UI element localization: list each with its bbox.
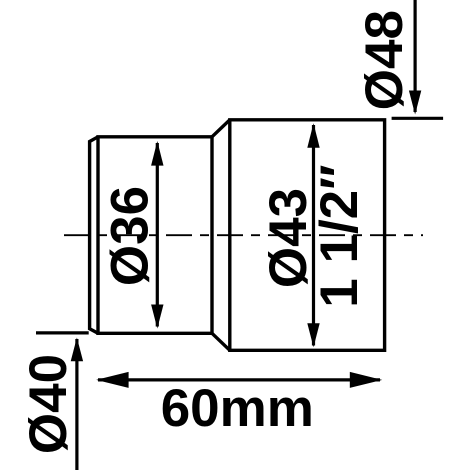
dimension Ø43 arrowhead down — [307, 323, 319, 347]
large cylinder outline — [230, 120, 385, 350]
dimension Ø48 arrow line — [414, 0, 417, 112]
small cylinder left lip edge — [90, 137, 98, 333]
small cylinder barrel outline — [90, 120, 385, 350]
dimension Ø40 arrowhead up — [71, 338, 83, 362]
dimension 60mm arrowhead right — [350, 372, 382, 388]
dimension 60mm arrow line — [98, 378, 380, 381]
svg-text:Ø40: Ø40 — [19, 354, 78, 454]
centerline (dash-dot axis) — [64, 234, 423, 236]
dimension Ø40 tick — [36, 331, 89, 334]
dimension Ø36 arrowhead down — [151, 305, 163, 329]
dimension Ø36 arrowhead up — [151, 141, 163, 166]
svg-text:60mm: 60mm — [161, 379, 314, 438]
shoulder cone top — [212, 120, 230, 137]
dimension 60mm arrowhead left — [96, 372, 128, 388]
svg-text:Ø36: Ø36 — [100, 186, 159, 286]
dimension Ø36 arrow line — [156, 143, 159, 327]
svg-text:1 1/2″: 1 1/2″ — [310, 164, 369, 307]
dimension Ø48 arrowhead down — [409, 91, 421, 115]
dimension Ø40 arrow line — [75, 339, 78, 470]
shoulder cone bottom — [212, 333, 230, 350]
dimension Ø43 arrowhead up — [307, 123, 319, 148]
svg-text:Ø48: Ø48 — [355, 10, 414, 110]
dimension Ø48 tick — [392, 117, 444, 120]
dimension Ø43 arrow line — [312, 125, 315, 346]
